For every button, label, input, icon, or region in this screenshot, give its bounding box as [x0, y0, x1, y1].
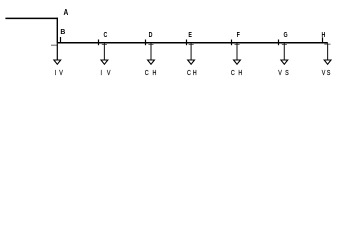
load label CH at node E — [187, 69, 197, 77]
outlet arrow at node H — [324, 60, 331, 64]
wire: main distribution bus B-H — [57, 42, 328, 44]
svg-text:V: V — [322, 69, 326, 77]
wire: tap at node D — [150, 43, 152, 60]
svg-text:S: S — [285, 69, 289, 77]
svg-text:H: H — [152, 69, 156, 77]
wire: tap at node G — [283, 43, 285, 60]
svg-text:I: I — [55, 69, 57, 77]
wire: vertical drop from A to B — [56, 18, 58, 44]
dash at node E tap — [189, 44, 194, 46]
tick at node B (above bus) — [60, 37, 62, 42]
outlet arrow at node F — [234, 60, 241, 64]
tick at node G — [278, 40, 280, 46]
dash at node D tap — [148, 44, 153, 46]
svg-text:D: D — [149, 31, 153, 39]
tick at node F — [231, 40, 233, 46]
svg-text:C: C — [231, 69, 235, 77]
dash at node G tap — [282, 44, 287, 46]
wire: tap at node H — [327, 43, 329, 60]
outlet arrow at node G — [281, 60, 288, 64]
svg-text:E: E — [188, 31, 192, 39]
svg-text:V: V — [59, 69, 63, 77]
svg-text:G: G — [284, 31, 288, 39]
svg-text:V: V — [278, 69, 282, 77]
outlet arrow at node B — [54, 60, 61, 64]
tick at node E — [186, 40, 188, 46]
load label CH at node F — [231, 69, 243, 77]
svg-text:C: C — [187, 69, 191, 77]
svg-text:H: H — [238, 69, 242, 77]
load label IV at node B — [55, 69, 63, 77]
svg-text:I: I — [101, 69, 103, 77]
svg-text:B: B — [60, 27, 65, 36]
svg-text:S: S — [327, 69, 331, 77]
tick at node C — [98, 40, 100, 46]
dash at node F tap — [235, 44, 240, 46]
wire: tap at node E — [190, 43, 192, 60]
svg-text:V: V — [107, 69, 111, 77]
wire: supply feed into node A — [5, 17, 58, 19]
wire: tap at node B — [56, 43, 58, 60]
wire: tap at node C — [103, 43, 105, 60]
svg-text:C: C — [145, 69, 149, 77]
svg-text:H: H — [321, 31, 325, 39]
outlet arrow at node E — [188, 60, 195, 64]
dash at node H tap — [324, 43, 330, 45]
load label CH at node D — [145, 69, 157, 77]
load label IV at node C — [101, 69, 112, 77]
svg-text:F: F — [237, 31, 240, 39]
svg-text:A: A — [64, 7, 69, 17]
load label VS at node G — [278, 69, 289, 77]
svg-text:C: C — [103, 31, 107, 39]
dash at node B tap — [51, 44, 57, 46]
outlet arrow at node C — [101, 60, 108, 64]
load label VS at node H — [322, 69, 331, 77]
tick at node D — [145, 40, 147, 46]
wire: tap at node F — [236, 43, 238, 60]
outlet arrow at node D — [148, 60, 155, 64]
svg-text:H: H — [193, 69, 197, 77]
tick at node H — [322, 37, 324, 42]
dash at node C tap — [102, 44, 107, 46]
